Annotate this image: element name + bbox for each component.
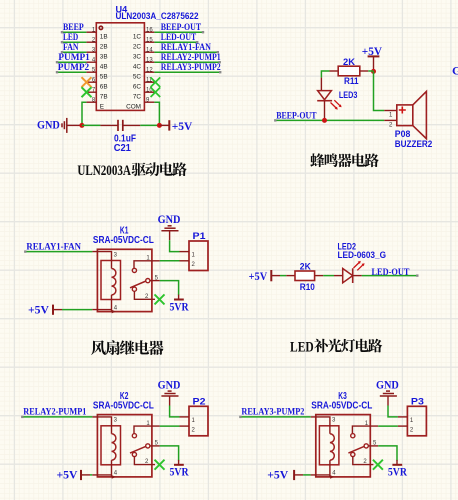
ground symbol GND (K3) [386,390,390,392]
svg-text:+5V: +5V [28,302,49,316]
U4 pin 15 (2C) [144,41,154,43]
svg-text:GND: GND [452,64,458,78]
wire relay K1 pin 5 to 5VR [160,281,179,296]
relay K1 outer body [97,249,151,311]
power symbol +5V (K2) [80,470,82,480]
no-connect X on relay K3 pin 2 [373,460,383,470]
svg-text:COM: COM [126,104,141,111]
svg-text:5B: 5B [100,74,108,81]
relay K2 pin 1 contact [134,426,160,433]
svg-text:5VR: 5VR [170,465,189,479]
relay K2 pin 4 lead with arrow [111,460,113,477]
U4 pin 12 (5C) [144,71,154,73]
wire relay K3 pin 1 to P3 pin 2 [378,425,398,427]
wire PUMP2 to U4 pin 5 [57,71,86,73]
wire GND to P1 pin 1 [170,240,180,251]
svg-text:13: 13 [146,57,153,63]
power symbol +5V (U4) [159,124,169,126]
power symbol +5V (K3) [293,470,295,480]
U4 pin 6 (6B) [86,81,96,83]
svg-text:LED: LED [290,339,314,355]
svg-text:4B: 4B [100,64,108,71]
svg-text:LED: LED [63,33,78,43]
wire relay K2 pin 5 to 5VR [160,446,179,461]
svg-text:5VR: 5VR [170,299,189,313]
connector P2 body [189,406,208,436]
svg-text:LED-OUT: LED-OUT [161,33,197,43]
relay K3 coil box [319,426,339,465]
relay K2 pin 2 lead [134,457,155,465]
svg-text:2C: 2C [133,44,142,51]
svg-text:2B: 2B [100,44,108,51]
relay K2 pin 3 lead [92,417,111,434]
resistor R10 [286,275,295,277]
svg-text:LED-0603_G: LED-0603_G [338,250,387,260]
svg-text:RELAY2-PUMP1: RELAY2-PUMP1 [161,53,221,63]
svg-text:ULN2003A_C2875622: ULN2003A_C2875622 [116,11,199,21]
relay K2 pin 5 contact [146,444,150,448]
svg-text:3C: 3C [133,54,142,61]
svg-text:RELAY3-PUMP2: RELAY3-PUMP2 [161,63,221,73]
svg-text:SRA-05VDC-CL: SRA-05VDC-CL [311,401,372,412]
wire R11 to LED3 anode [321,71,329,78]
U4 pin 1 (1B) [86,31,96,33]
svg-text:E: E [100,104,104,111]
ground symbol GND (K2) [168,390,172,392]
svg-text:LED3: LED3 [339,90,358,100]
buzzer P08 body [397,105,413,126]
no-connect X on U4 pin 10 [151,87,161,97]
title fan relay circuit [91,340,106,355]
no-connect X on relay K1 pin 2 [155,294,165,304]
svg-text:14: 14 [146,47,153,53]
no-connect X on U4 pin 6 [82,77,92,87]
svg-text:4C: 4C [133,64,142,71]
connector P2 pin 1 [180,416,190,418]
junction dot at GND rail [79,123,84,128]
ground symbol GND (K1) [168,225,172,227]
U4 pin 8 (E) [86,101,96,103]
wire relay K2 pin 1 to P2 pin 2 [160,425,180,427]
U4 pin 11 (6C) [144,81,154,83]
relay K1 pin 3 lead [92,252,111,269]
svg-text:+5V: +5V [267,468,288,482]
wire U4 pin 15 to LED-OUT [154,41,197,43]
relay K1 pin 1 contact [134,261,160,268]
wire U4 pin 14 to RELAY1-FAN [154,51,217,53]
connector P3 body [407,406,426,436]
svg-text:GND: GND [158,378,181,392]
wire PUMP1 to U4 pin 4 [57,61,86,63]
LED LED2 [334,275,343,277]
junction dot below +5V (buzzer) [371,69,376,74]
U4 pin 13 (4C) [144,61,154,63]
resistor R11 [330,70,339,72]
relay K3 pin 3 lead [311,417,330,434]
buzzer P08 pin 1 [384,110,397,112]
svg-text:SRA-05VDC-CL: SRA-05VDC-CL [93,401,154,412]
wire FAN to U4 pin 3 [62,51,86,53]
power symbol 5VR (K1) [178,295,180,300]
U4 pin 5 (5B) [86,71,96,73]
wire RELAY2-PUMP1 to relay K2 pin 3 [22,416,92,418]
svg-text:FAN: FAN [63,43,79,53]
svg-text:5VR: 5VR [388,465,407,479]
wire relay K1 pin 1 to P1 pin 2 [160,260,180,262]
svg-text:3B: 3B [100,54,108,61]
wire LED2 to LED-OUT [362,275,418,277]
connector P3 pin 1 [398,416,408,418]
wire GND rail to C21 [82,124,101,126]
buzzer P08 pin 2 [384,119,397,121]
power symbol +5V (buzzer) [368,55,380,57]
power symbol 5VR (K2) [178,460,180,465]
svg-text:ULN2003A: ULN2003A [77,163,131,179]
svg-text:PUMP2: PUMP2 [58,63,90,73]
svg-text:PUMP1: PUMP1 [58,53,90,63]
svg-text:1B: 1B [100,34,108,41]
wire RELAY3-PUMP2 to relay K3 pin 3 [240,416,310,418]
svg-text:+5V: +5V [172,119,193,133]
relay K2 outer body [97,415,151,477]
U4 pin 16 (1C) [144,31,154,33]
wire C21 to +5V [140,124,159,126]
relay K3 coil [330,434,334,460]
svg-text:6B: 6B [100,84,108,91]
relay K2 coil box [101,426,121,465]
power symbol 5VR (K3) [396,460,398,465]
U4 pin 2 (2B) [86,41,96,43]
U4 pin 4 (4B) [86,61,96,63]
relay K3 pin 2 lead [353,457,374,465]
wire U4 pin 8 (E) to ground rail [82,102,86,125]
wire GND to P3 pin 1 [388,406,398,417]
U4 pin 14 (3C) [144,51,154,53]
svg-text:+5V: +5V [57,468,78,482]
svg-text:GND: GND [37,118,60,132]
svg-text:16: 16 [146,27,153,33]
U4 pin 3 (3B) [86,51,96,53]
wire BEEP-OUT to buzzer pin 2 [275,119,384,121]
svg-text:+5V: +5V [249,269,268,283]
wire RELAY1-FAN to relay K1 pin 3 [25,251,92,253]
relay K1 coil box [101,261,121,300]
svg-text:BEEP-OUT: BEEP-OUT [161,23,202,33]
relay K2 coil [112,434,116,460]
wire LED to U4 pin 2 [62,41,86,43]
svg-text:12: 12 [146,67,153,73]
wire GND to P2 pin 1 [170,406,180,417]
U4 pin 10 (7C) [144,91,154,93]
relay K1 pin 2 lead [134,291,155,299]
connector P2 pin 2 [180,425,190,427]
LED LED3 [320,78,322,91]
svg-text:SRA-05VDC-CL: SRA-05VDC-CL [93,235,154,246]
svg-text:R11: R11 [344,76,359,86]
svg-text:RELAY1-FAN: RELAY1-FAN [26,242,81,252]
connector P3 pin 2 [398,425,408,427]
svg-text:RELAY1-FAN: RELAY1-FAN [161,43,211,53]
svg-text:P08: P08 [395,129,411,139]
connector P1 body [189,241,208,271]
svg-text:R10: R10 [300,282,315,292]
wire U4 pin 16 to BEEP-OUT [154,31,203,33]
capacitor C21 [100,124,118,126]
svg-text:BUZZER2: BUZZER2 [395,139,433,149]
connector P1 pin 2 [180,260,190,262]
relay K3 outer body [316,415,371,477]
svg-text:BEEP: BEEP [63,23,84,33]
relay K1 pin 5 contact [146,279,150,283]
wire +5V to relay K1 pin 4 [62,309,92,311]
relay K2 common arm [130,446,146,453]
svg-text:6C: 6C [133,84,142,91]
junction dot LED3 cathode [322,118,327,123]
IC U4 ULN2003A body [96,23,144,111]
wire U4 pin 12 to RELAY3-PUMP2 [154,71,220,73]
no-connect X on relay K2 pin 2 [155,460,165,470]
svg-text:RELAY2-PUMP1: RELAY2-PUMP1 [23,408,86,418]
U4 pin 7 (7B) [86,91,96,93]
U4 pin 9 (COM) [144,101,154,103]
svg-text:2K: 2K [300,261,311,271]
wire +5V to R10 [280,275,286,277]
svg-text:GND: GND [376,378,399,392]
no-connect X on U4 pin 7 [82,87,92,97]
relay K3 pin 1 contact [352,426,378,433]
junction dot at +5V rail [157,123,162,128]
wire R10 to LED2 [323,275,334,277]
svg-text:15: 15 [146,37,153,43]
no-connect X on U4 pin 11 [151,77,161,87]
connector P1 pin 1 [180,251,190,253]
svg-text:1C: 1C [133,34,142,41]
wire U4 pin 9 (COM) to +5V rail [154,102,159,125]
ground symbol GND [61,123,63,127]
svg-text:5C: 5C [133,74,142,81]
relay K1 pin 4 lead with arrow [111,295,113,312]
wire R11 to +5V junction [368,70,373,72]
relay K1 common arm [130,281,146,288]
svg-text:7C: 7C [133,94,142,101]
wire +5V to buzzer pin 1 [374,71,385,110]
wire +5V to relay K3 pin 4 [303,474,311,476]
svg-text:C21: C21 [114,143,132,154]
title buzzer circuit [310,153,324,167]
relay K3 common arm [348,446,364,453]
svg-text:GND: GND [158,212,181,226]
relay K3 pin 4 lead with arrow [329,460,331,477]
wire relay K3 pin 5 to 5VR [378,446,397,461]
power symbol +5V (LED circuit) [270,270,272,281]
wire U4 pin 13 to RELAY2-PUMP1 [154,61,219,63]
wire +5V to relay K2 pin 4 [90,474,92,476]
svg-text:7B: 7B [100,94,108,101]
svg-text:RELAY3-PUMP2: RELAY3-PUMP2 [241,408,304,418]
power symbol +5V (K1) [52,305,54,315]
wire BEEP to U4 pin 1 [62,31,86,33]
relay K1 coil [112,269,116,295]
relay K3 pin 5 contact [364,444,368,448]
